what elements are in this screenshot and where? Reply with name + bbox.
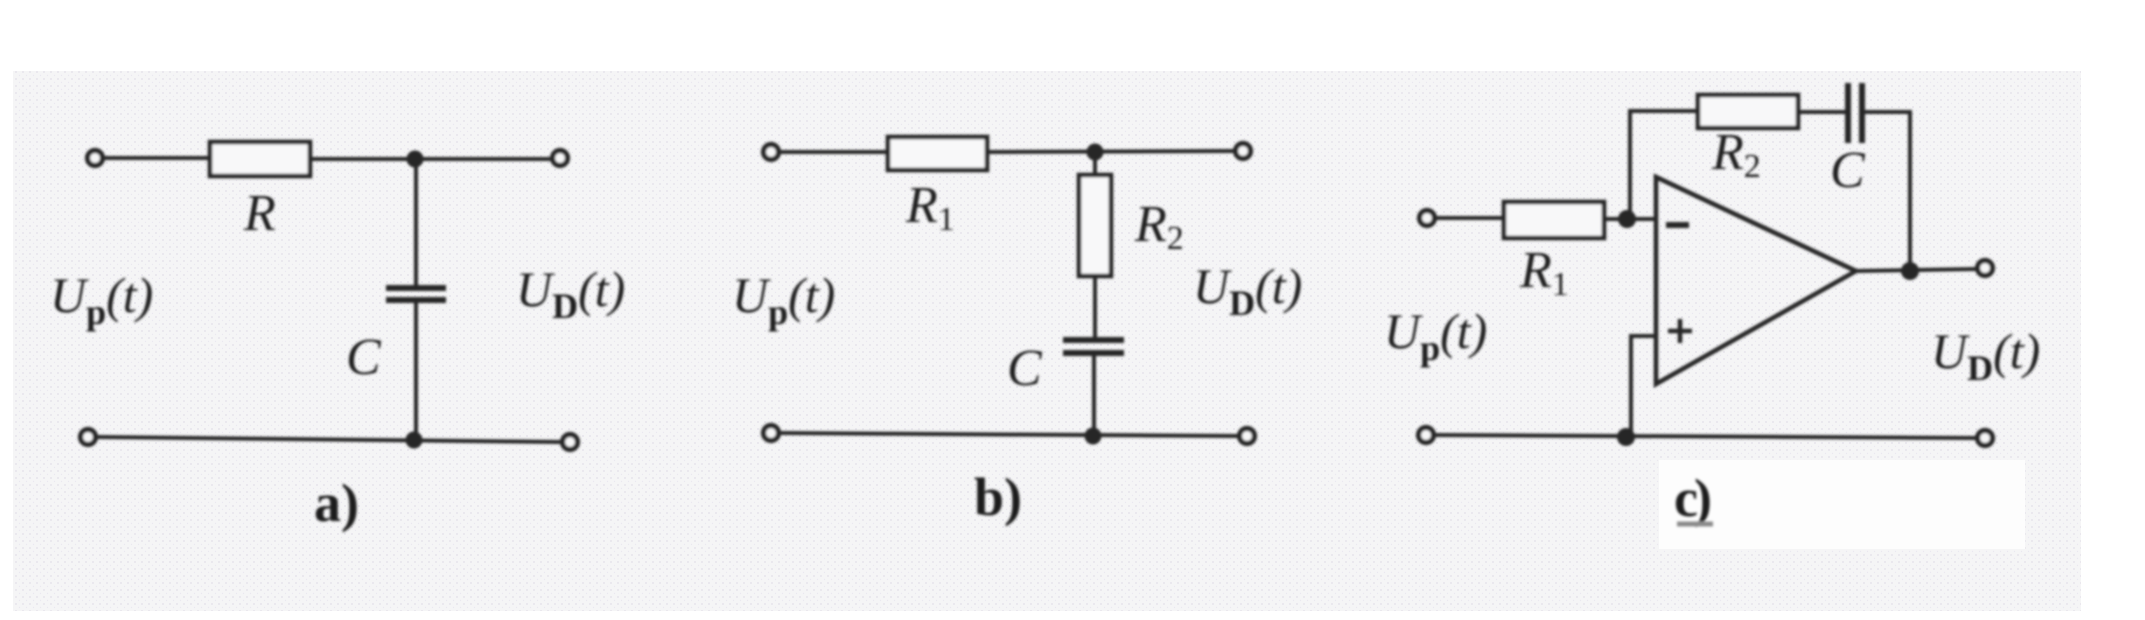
wire bottom rail b xyxy=(780,433,1239,436)
capacitor C (circuit b) xyxy=(1063,340,1124,353)
svg-text:C: C xyxy=(346,329,382,386)
capacitor C (circuit a) xyxy=(386,288,446,300)
node output junction xyxy=(1901,262,1919,280)
svg-text:R: R xyxy=(243,185,276,242)
node bottom junction a xyxy=(406,432,423,449)
terminal a top-right xyxy=(553,151,568,166)
resistor R xyxy=(210,142,310,176)
wire xyxy=(1604,217,1654,221)
svg-text:a): a) xyxy=(314,473,359,533)
terminal a top-left xyxy=(88,151,103,166)
op-amp U1 xyxy=(1656,177,1856,384)
wire bottom rail a xyxy=(97,437,562,442)
node ground junction c xyxy=(1617,428,1635,446)
terminal c bottom-right xyxy=(1978,431,1993,446)
wire bottom rail c xyxy=(1435,435,1977,438)
wire xyxy=(1092,356,1096,436)
terminal b top-right xyxy=(1236,144,1251,159)
wire xyxy=(1093,153,1097,177)
resistor R1 (circuit c) xyxy=(1504,202,1604,238)
terminal c output xyxy=(1978,261,1993,276)
svg-text:C: C xyxy=(1830,142,1866,199)
terminal a bottom-left xyxy=(81,430,96,445)
wire xyxy=(414,303,418,440)
wire xyxy=(1093,276,1097,337)
wire xyxy=(104,156,212,160)
wire xyxy=(1798,110,1846,114)
wire noninverting step xyxy=(1631,336,1656,437)
wire xyxy=(1436,216,1506,220)
svg-text:c): c) xyxy=(1674,468,1710,528)
terminal a bottom-right xyxy=(563,435,578,450)
resistor R1 (circuit b) xyxy=(888,137,987,170)
node top junction a xyxy=(407,151,424,168)
terminal b bottom-right xyxy=(1240,429,1255,444)
capacitor C (circuit c) xyxy=(1848,83,1862,143)
wire xyxy=(987,151,1236,152)
resistor R2 (circuit c) xyxy=(1698,95,1798,128)
op-amp plus sign xyxy=(1668,319,1692,343)
terminal b top-left xyxy=(764,145,779,160)
terminal b bottom-left xyxy=(764,426,779,441)
node inverting input junction xyxy=(1618,210,1636,228)
resistor R2 (circuit b) xyxy=(1079,175,1111,276)
svg-text:b): b) xyxy=(974,467,1022,527)
wire output xyxy=(1856,269,1977,271)
wire xyxy=(414,159,418,286)
node bottom junction b xyxy=(1085,428,1102,445)
terminal c bottom-left xyxy=(1419,428,1434,443)
terminal c input xyxy=(1420,211,1435,226)
wire feedback riser right xyxy=(1864,112,1910,271)
wire xyxy=(780,150,892,154)
wire feedback riser left xyxy=(1630,111,1700,217)
op-amp minus sign xyxy=(1666,222,1689,228)
node top junction b xyxy=(1087,144,1104,161)
wire xyxy=(310,157,553,161)
svg-text:C: C xyxy=(1007,340,1043,397)
